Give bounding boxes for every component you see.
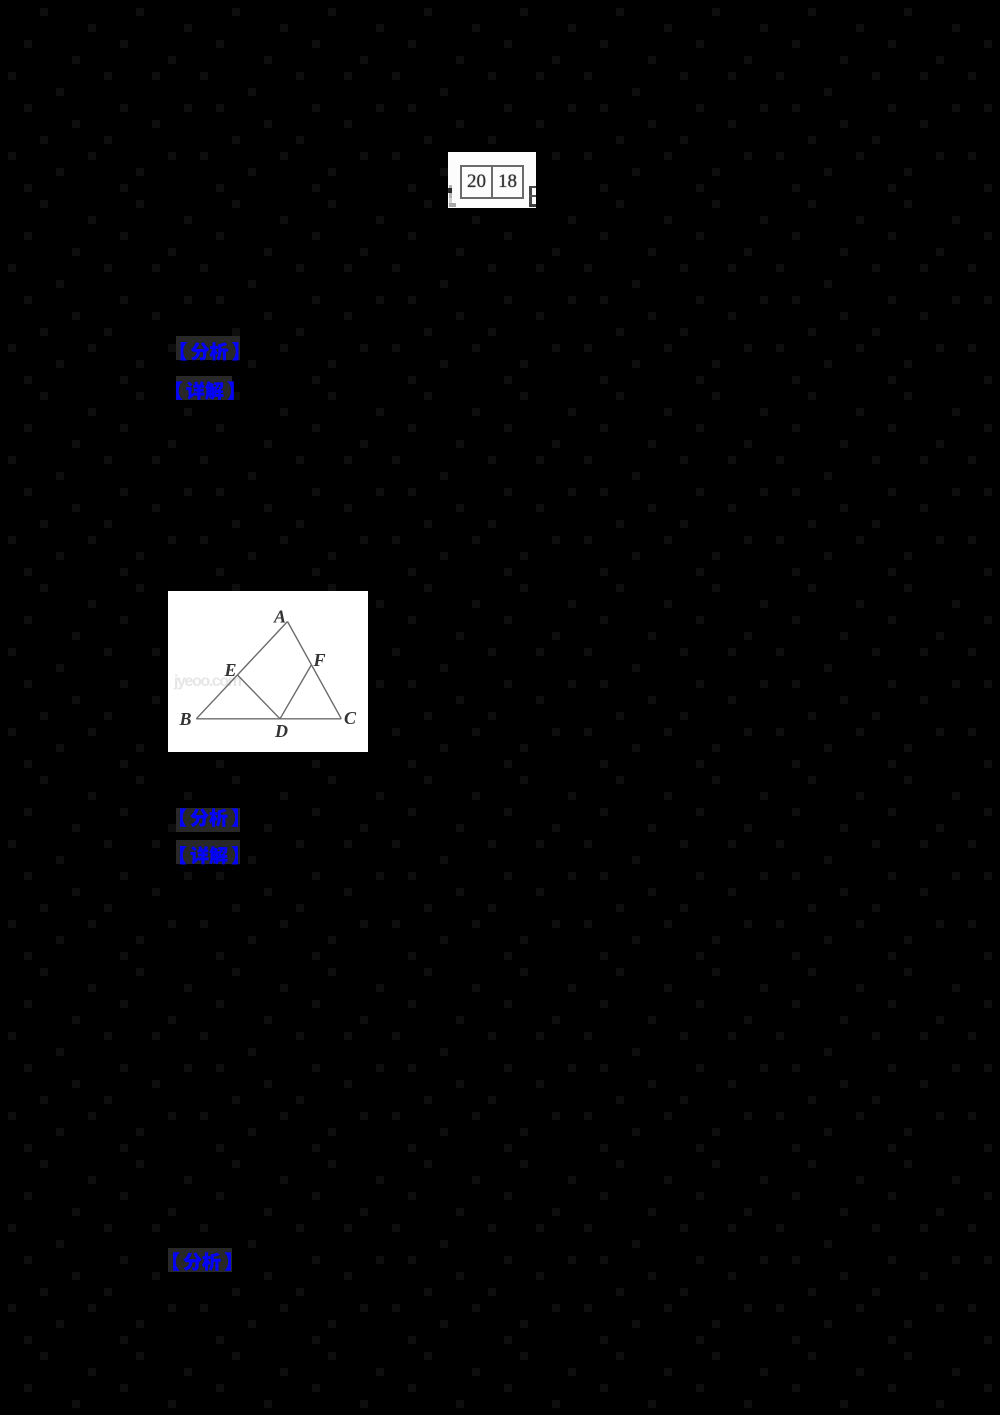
svg-text:E: E [224,660,237,680]
svg-text:B: B [179,709,192,729]
segment ED [238,675,281,719]
side AC [288,622,342,719]
svg-text:F: F [313,650,326,670]
label 【详解】 #1 text [156,371,258,407]
label 【详解】 #1 highlight [176,376,232,400]
geometry figure box [168,591,368,752]
segment DF [280,665,311,719]
label 【分析】 #2 highlight [176,808,240,832]
svg-text:C: C [344,708,357,728]
year image 20|18 [448,152,536,208]
side AB [196,622,287,719]
label 【详解】 #2 highlight [176,840,240,864]
svg-text:D: D [274,721,288,741]
label 【分析】 #3 highlight [168,1248,232,1272]
side BC [196,718,341,720]
label 【详解】 #2 text [156,835,266,871]
label 【分析】 #2 text [156,803,266,839]
svg-text:A: A [273,607,286,627]
left edge glyph fragment [449,185,452,198]
label 【分析】 #1 highlight [176,336,240,360]
right edge glyph fragment [529,186,532,206]
label 【分析】 #3 text [148,1243,258,1279]
label 【分析】 #1 text [156,331,266,367]
table 20|18 [460,165,524,199]
